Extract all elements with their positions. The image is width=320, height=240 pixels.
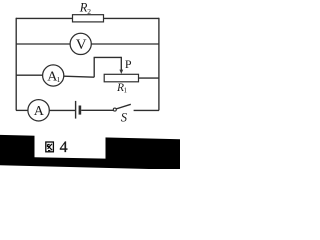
wire ammeter A1 row left xyxy=(16,74,43,76)
ammeter A1 circle xyxy=(43,65,64,86)
wire left vertical rail xyxy=(15,18,17,111)
wire riser up xyxy=(93,57,95,77)
wire switch right xyxy=(134,109,159,111)
resistor R2 xyxy=(73,15,104,22)
wire A1 to riser xyxy=(64,76,94,77)
wire top-right segment xyxy=(104,17,160,19)
svg-text:4: 4 xyxy=(60,139,68,156)
voltmeter V xyxy=(70,33,91,54)
wire A to battery xyxy=(49,109,75,111)
svg-text:2: 2 xyxy=(87,7,91,16)
svg-text:V: V xyxy=(76,37,87,53)
wire top-left segment xyxy=(16,17,73,19)
battery long plate xyxy=(75,101,77,119)
wire wiper feed xyxy=(94,56,122,58)
wire bottom left xyxy=(16,109,28,111)
wire voltmeter row left xyxy=(16,43,70,45)
rheostat R1 xyxy=(104,74,138,82)
wire voltmeter row right xyxy=(91,43,159,45)
caption label 图 (drawn glyph) xyxy=(46,142,54,152)
caption white box xyxy=(35,128,106,159)
wiper arrowhead xyxy=(119,70,123,74)
wire R1 right terminal xyxy=(139,77,160,79)
wiper arrow P shaft xyxy=(120,57,122,70)
switch S lever xyxy=(116,104,131,109)
battery short plate xyxy=(79,106,82,115)
wire battery to switch xyxy=(81,109,113,111)
svg-text:A: A xyxy=(34,104,45,119)
svg-text:1: 1 xyxy=(57,75,61,84)
wire right vertical rail xyxy=(158,18,160,111)
ammeter A circle xyxy=(28,100,49,121)
switch S pivot xyxy=(113,108,116,111)
black caption bar xyxy=(0,135,180,170)
svg-text:1: 1 xyxy=(124,87,128,95)
svg-text:S: S xyxy=(121,110,128,124)
svg-text:P: P xyxy=(125,57,132,71)
